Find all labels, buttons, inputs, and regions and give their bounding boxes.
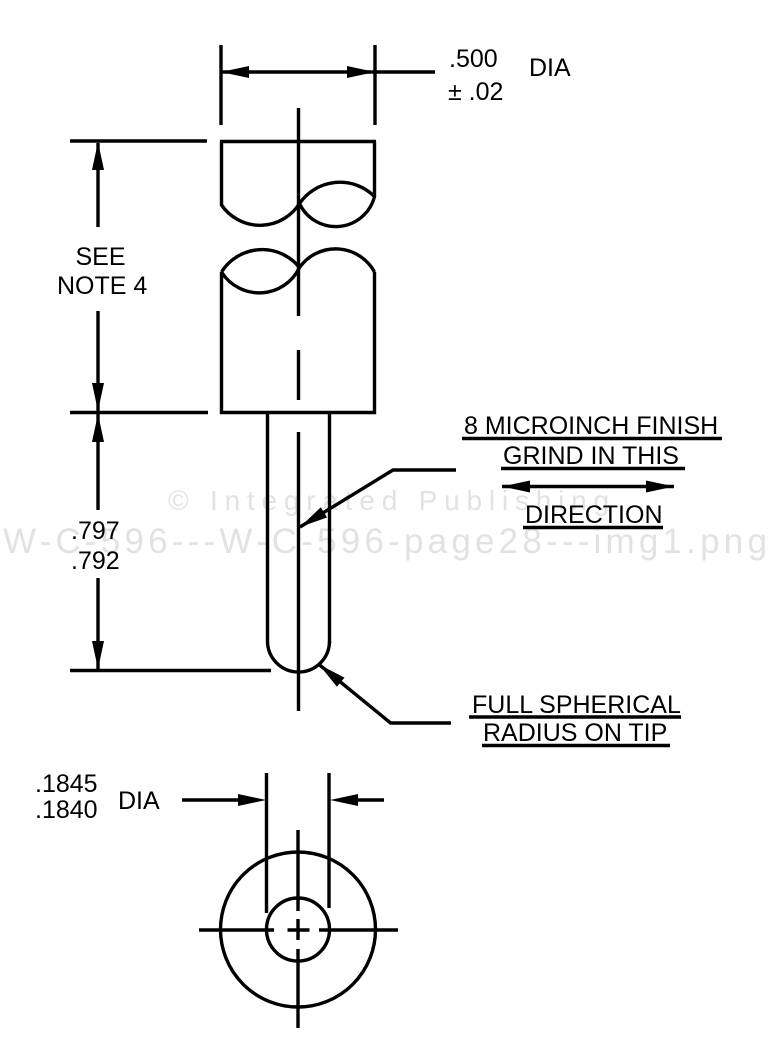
svg-text:RADIUS ON TIP: RADIUS ON TIP (483, 719, 667, 747)
upper S-break: right lens bottom arc (300, 197, 375, 227)
body bottom edge (220, 411, 376, 414)
end view horizontal centerline (199, 928, 274, 931)
body top edge (220, 140, 376, 143)
dim .500: right extension line (373, 45, 376, 125)
arrowhead see-note top (92, 142, 104, 170)
arrowhead dim .500 right (347, 66, 375, 78)
svg-text:GRIND IN THIS: GRIND IN THIS (503, 442, 679, 470)
arrowhead dim .797 bottom (92, 641, 104, 669)
svg-text:NOTE 4: NOTE 4 (57, 272, 147, 300)
dim .797 line lower segment (96, 578, 99, 669)
svg-text:.797: .797 (71, 517, 120, 545)
lower S-break: right cap arc (300, 249, 375, 272)
underline: 8 MICROINCH FINISH (462, 437, 722, 440)
lower S-break: left lens top arc (222, 250, 300, 272)
body left side (upper segment) (220, 142, 223, 207)
see-note dim: middle extension line (70, 411, 208, 414)
dim .1845: left extension line (265, 773, 268, 913)
svg-text:DIA: DIA (529, 54, 571, 82)
svg-text:DIRECTION: DIRECTION (525, 501, 663, 529)
direction double-arrow line (502, 485, 674, 488)
lower S-break: left lens bottom arc (222, 268, 300, 293)
shaft right side (328, 413, 331, 643)
svg-text:FULL SPHERICAL: FULL SPHERICAL (472, 691, 681, 719)
underline: FULL SPHERICAL (469, 715, 681, 718)
see-note dim line lower segment (96, 311, 99, 411)
leader line to shaft (microinch note) (300, 470, 456, 527)
shaft spherical tip arc (268, 641, 330, 672)
end view vertical centerline (296, 830, 299, 911)
end view inner circle (267, 898, 330, 961)
arrowhead microinch leader (300, 507, 327, 527)
shaft left side (266, 413, 269, 641)
see-note dim: top extension line (70, 139, 207, 142)
svg-text:DIA: DIA (118, 787, 160, 815)
arrowhead dim .500 left (221, 66, 249, 78)
body left side (lower segment) (220, 272, 223, 414)
arrowhead dim .1845 right (330, 794, 358, 806)
dim .500: left extension line (219, 45, 222, 125)
svg-text:.1840: .1840 (35, 796, 98, 824)
arrowhead see-note bottom (92, 383, 104, 411)
arrowhead direction left (502, 481, 530, 493)
svg-text:.792: .792 (71, 547, 120, 575)
upper S-break: left cup arc (222, 204, 300, 226)
underline: GRIND IN THIS (501, 467, 685, 470)
dim .1845: right arrow tail line (348, 798, 384, 801)
svg-text:.500: .500 (449, 45, 498, 73)
dim .1845: right extension line (327, 773, 330, 908)
underline: RADIUS ON TIP (482, 744, 670, 747)
dim .797 line upper segment (96, 414, 99, 510)
leader line to tip (spherical radius note) (319, 665, 451, 724)
svg-text:.1845: .1845 (35, 770, 98, 798)
svg-text:SEE: SEE (76, 243, 126, 271)
upper S-break: right lens top arc (300, 182, 375, 203)
svg-text:8 MICROINCH FINISH: 8 MICROINCH FINISH (464, 412, 718, 440)
end view outer circle (221, 852, 376, 1007)
underline: DIRECTION (523, 526, 663, 529)
svg-text:± .02: ± .02 (448, 78, 503, 106)
dim .500: dimension line (222, 70, 435, 73)
dim .797: bottom extension line (70, 669, 271, 672)
see-note dim line upper segment (96, 143, 99, 227)
part centerline (front view) (297, 108, 300, 316)
body right side (upper segment) (373, 142, 376, 198)
body right side (lower segment) (373, 272, 376, 414)
dim .1845: left arrow tail line (182, 798, 252, 801)
arrowhead spherical-radius leader (319, 665, 345, 687)
arrowhead direction right (646, 481, 674, 493)
arrowhead dim .797 top (92, 414, 104, 442)
arrowhead dim .1845 left (238, 794, 266, 806)
